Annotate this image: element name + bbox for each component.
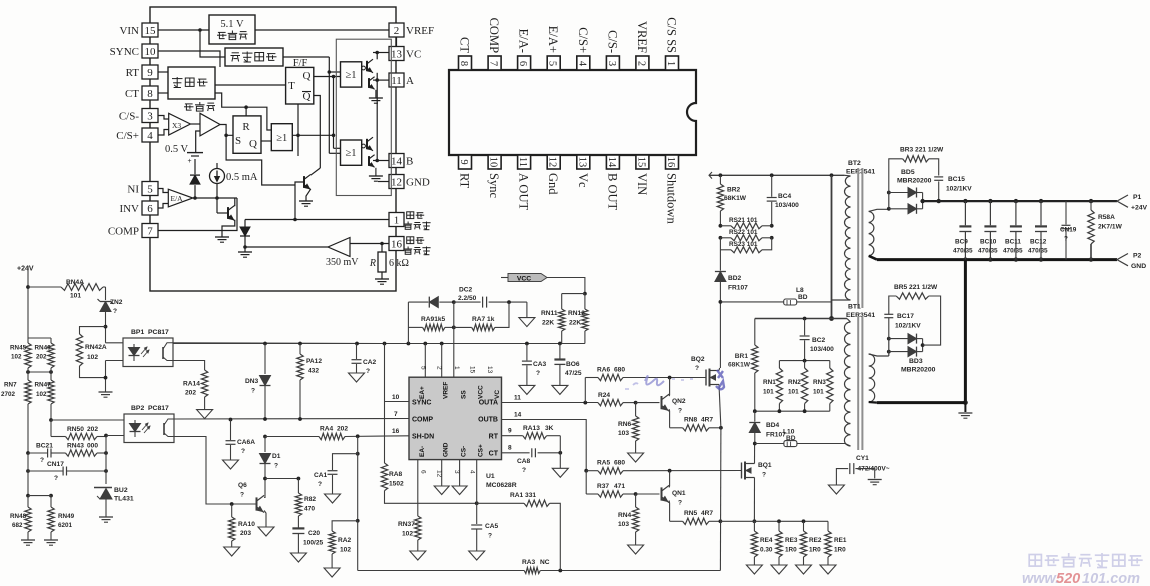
svg-text:10: 10 xyxy=(392,394,400,401)
svg-text:VREF: VREF xyxy=(443,382,450,399)
svg-text:+: + xyxy=(188,158,192,165)
diode below battery xyxy=(194,159,196,174)
svg-text:RA6: RA6 xyxy=(597,367,611,374)
svg-text:Q: Q xyxy=(303,70,311,82)
svg-text:BC12: BC12 xyxy=(1030,239,1047,246)
svg-text:C/S-: C/S- xyxy=(119,111,140,123)
DIP pin 7 COMP xyxy=(488,56,501,70)
svg-text:BD5: BD5 xyxy=(901,169,915,176)
svg-text:5: 5 xyxy=(420,366,427,370)
svg-text:RN2: RN2 xyxy=(788,379,801,386)
wire RT to oscillator xyxy=(158,71,168,73)
svg-text:CS+: CS+ xyxy=(478,444,485,457)
svg-text:C/S+: C/S+ xyxy=(116,130,139,142)
wire to BP1 LED xyxy=(106,342,124,344)
svg-text:CY1: CY1 xyxy=(856,455,869,462)
resistor RN46 202 xyxy=(50,338,52,343)
diode on DC2 row xyxy=(407,302,409,343)
OR gate small >=1 xyxy=(271,124,292,151)
pin 5 NI (block diagram) xyxy=(142,182,158,196)
svg-text:BR1: BR1 xyxy=(735,353,749,360)
svg-text:13: 13 xyxy=(486,366,493,374)
svg-text:1502: 1502 xyxy=(389,481,404,488)
SS pin column xyxy=(453,302,455,377)
svg-text:203: 203 xyxy=(240,530,251,537)
svg-text:2: 2 xyxy=(436,366,443,370)
svg-text:RN12: RN12 xyxy=(568,310,585,317)
resistor RA14 202 xyxy=(201,370,207,397)
svg-text:RT: RT xyxy=(126,67,140,79)
svg-text:11: 11 xyxy=(514,395,521,402)
capacitor CN17 xyxy=(26,469,30,473)
svg-text:15: 15 xyxy=(635,157,646,168)
DIP pin 12 Gnd xyxy=(547,155,560,169)
svg-text:RN48: RN48 xyxy=(10,513,27,520)
svg-text:1R0: 1R0 xyxy=(785,547,797,554)
thick secondary return xyxy=(869,256,877,260)
svg-text:1: 1 xyxy=(665,61,676,66)
diode BD2 FR107 xyxy=(715,272,726,282)
svg-text:RA14: RA14 xyxy=(183,381,200,388)
svg-text:2: 2 xyxy=(394,25,400,37)
svg-text:+24V: +24V xyxy=(1131,205,1148,212)
svg-text:?: ? xyxy=(678,500,682,507)
svg-text:520: 520 xyxy=(1056,571,1080,586)
svg-text:CT: CT xyxy=(489,451,499,458)
DIP pin 14 B OUT xyxy=(606,155,619,169)
svg-text:CT: CT xyxy=(125,88,139,100)
resistor RN2 101 xyxy=(804,361,806,368)
svg-text:9: 9 xyxy=(458,159,469,164)
IC functional block diagram outer box xyxy=(150,7,396,291)
svg-text:2702: 2702 xyxy=(1,391,16,398)
svg-text:SYNC: SYNC xyxy=(110,46,139,58)
svg-text:Shutdown: Shutdown xyxy=(664,173,678,224)
svg-text:16: 16 xyxy=(665,157,676,168)
U1 MC0628R controller IC xyxy=(409,377,502,459)
resistor RA7 1k xyxy=(454,326,472,328)
svg-text:≥1: ≥1 xyxy=(345,70,356,81)
svg-text:CA8: CA8 xyxy=(517,458,531,465)
middle driver transistor xyxy=(303,176,305,188)
svg-text:RS21 101: RS21 101 xyxy=(729,217,758,224)
resistor R24 xyxy=(598,399,623,405)
wire pin15 to 5.1V ref to pin2 VREF xyxy=(158,29,209,31)
OR gate B >=1 xyxy=(341,140,362,165)
svg-text:BR5 221 1/2W: BR5 221 1/2W xyxy=(894,284,938,291)
svg-text:R24: R24 xyxy=(598,392,610,399)
resistor RN6 103 to ground xyxy=(635,403,637,416)
wire emitters to pin 14 B xyxy=(373,160,389,162)
earth under totem B and pin 12 GND xyxy=(375,168,377,176)
svg-text:6: 6 xyxy=(147,203,153,215)
svg-text:4: 4 xyxy=(576,61,587,67)
zener ZN2 xyxy=(103,286,106,288)
svg-text:RA91k5: RA91k5 xyxy=(421,316,446,323)
svg-text:3: 3 xyxy=(453,470,460,474)
current-sense comparator xyxy=(200,113,220,136)
resistor RA10 203 xyxy=(231,504,233,517)
svg-text:GND: GND xyxy=(406,177,430,189)
svg-text:RN3: RN3 xyxy=(813,379,826,386)
resistor RN50 202 xyxy=(51,436,66,438)
wire +24V column A xyxy=(27,272,29,338)
svg-text:RS23 101: RS23 101 xyxy=(729,241,758,248)
svg-text:682: 682 xyxy=(12,522,23,529)
pin 2 VREF (block diagram) xyxy=(389,23,404,37)
svg-text:?: ? xyxy=(488,533,492,540)
svg-text:RN7: RN7 xyxy=(4,382,17,389)
svg-text:RN45: RN45 xyxy=(10,345,27,352)
svg-text:BC4: BC4 xyxy=(778,193,792,200)
resistor RN48 682 xyxy=(27,496,29,507)
svg-text:COMP: COMP xyxy=(108,226,139,238)
svg-text:RA5: RA5 xyxy=(597,460,611,467)
svg-text:VCC: VCC xyxy=(517,275,531,282)
svg-text:101.com: 101.com xyxy=(1082,571,1140,586)
svg-text:RN46: RN46 xyxy=(35,345,52,352)
svg-text:COMP: COMP xyxy=(487,18,501,53)
wire SYNC to oscillator xyxy=(158,51,220,67)
resistor RN1 101 xyxy=(778,361,780,368)
wire pin3 to X3 xyxy=(158,116,169,120)
wire to VC pin 13 xyxy=(373,52,389,54)
svg-text:?: ? xyxy=(318,481,322,488)
svg-text:RE2: RE2 xyxy=(809,537,822,544)
oscillator box 振荡器 xyxy=(168,67,215,99)
DIP pin 2 VREF xyxy=(636,56,649,70)
svg-text:?: ? xyxy=(762,472,766,479)
connector P2 GND xyxy=(1117,254,1128,266)
svg-text:4R7: 4R7 xyxy=(701,417,713,424)
thick ground drop xyxy=(964,260,967,403)
svg-text:TL431: TL431 xyxy=(114,496,134,503)
svg-text:RN4A: RN4A xyxy=(66,279,84,286)
capacitor BC4 103/400 xyxy=(771,175,773,197)
wire UVLO to gate rail xyxy=(283,56,329,58)
svg-text:12: 12 xyxy=(547,157,558,168)
svg-text:470/35: 470/35 xyxy=(978,248,998,255)
wire pin6 INV to E/A xyxy=(158,204,168,209)
transformer BT1 core xyxy=(857,316,859,450)
svg-text:RA3: RA3 xyxy=(522,559,536,566)
svg-text:BC11: BC11 xyxy=(1005,239,1021,246)
svg-text:4: 4 xyxy=(469,470,476,474)
resistor RA5 680 xyxy=(586,470,598,472)
resistor RN42A 102 xyxy=(80,327,106,334)
svg-text:103/400: 103/400 xyxy=(810,346,834,353)
svg-text:?: ? xyxy=(113,308,117,315)
svg-text:RN4: RN4 xyxy=(618,512,632,519)
svg-text:P2: P2 xyxy=(1133,253,1142,260)
svg-text:12: 12 xyxy=(391,177,402,189)
svg-text:0.30: 0.30 xyxy=(760,547,773,554)
capacitor CA6A xyxy=(230,420,232,441)
svg-text:?: ? xyxy=(241,448,245,455)
wire F/F Q to gate A xyxy=(314,76,341,78)
svg-text:47/25: 47/25 xyxy=(565,370,582,377)
svg-text:102: 102 xyxy=(36,391,47,398)
svg-text:E/A-: E/A- xyxy=(517,29,531,53)
svg-text:?: ? xyxy=(536,370,540,377)
svg-text:BC9: BC9 xyxy=(955,239,968,246)
resistor RS21 101 xyxy=(719,224,723,228)
svg-text:RN6: RN6 xyxy=(618,421,632,428)
svg-text:CN19: CN19 xyxy=(1060,227,1077,234)
svg-text:1: 1 xyxy=(394,215,400,227)
wire pin5 NI to E/A xyxy=(158,189,168,193)
svg-text:RN50: RN50 xyxy=(67,426,84,433)
350mV comparator (shutdown) xyxy=(328,238,350,257)
svg-text:10: 10 xyxy=(488,157,499,168)
wire CT to oscillator xyxy=(158,92,168,94)
svg-text:EER3541: EER3541 xyxy=(846,312,875,319)
svg-text:BD: BD xyxy=(786,435,796,442)
resistor RE4 0.30 xyxy=(753,521,755,531)
svg-text:≥1: ≥1 xyxy=(345,148,356,159)
svg-text:GND: GND xyxy=(443,442,450,457)
svg-text:C/S+: C/S+ xyxy=(576,27,590,53)
VCC flag xyxy=(508,274,547,282)
resistor RN43 000 xyxy=(66,450,98,456)
svg-text:T: T xyxy=(288,80,295,92)
svg-text:101: 101 xyxy=(763,389,774,396)
svg-text:471: 471 xyxy=(614,483,625,490)
resistor RA8 1502 xyxy=(381,463,387,491)
DIP pin 3 C/S- xyxy=(606,56,619,70)
svg-text:102: 102 xyxy=(402,531,413,538)
wire emitters to pin 11 A xyxy=(373,79,389,81)
svg-text:INV: INV xyxy=(119,203,139,215)
resistor RE2 1R0 xyxy=(803,521,805,531)
RT CT ground xyxy=(559,436,561,469)
svg-text:Q: Q xyxy=(249,138,257,150)
UVLO vertical rail to both gates xyxy=(328,57,330,153)
svg-text:RA10: RA10 xyxy=(238,521,255,528)
svg-text:202: 202 xyxy=(87,426,98,433)
earth ground at secondary xyxy=(958,412,972,414)
svg-text:B: B xyxy=(406,156,413,168)
resistor BR1 68K1W xyxy=(754,319,756,346)
wire BP2 cathode junction xyxy=(104,434,108,438)
svg-text:EA-: EA- xyxy=(419,446,426,457)
capacitor BC21 xyxy=(26,451,30,455)
wire 5.1V node down to UVLO xyxy=(200,30,225,57)
output stage enclosure box xyxy=(336,39,391,195)
DIP pin 1 C/S SS xyxy=(666,56,679,70)
wire D1 node to R82 xyxy=(265,478,298,480)
resistor BR2 68K1W xyxy=(719,175,721,184)
pin 10 SYNC (block diagram) xyxy=(142,44,158,58)
svg-text:RA7 1k: RA7 1k xyxy=(472,316,495,323)
svg-text:RN47: RN47 xyxy=(35,382,52,389)
totem transistor A lower xyxy=(368,78,370,88)
svg-text:VCC: VCC xyxy=(478,385,485,399)
svg-text:4: 4 xyxy=(147,130,153,142)
svg-text:CN17: CN17 xyxy=(47,461,64,468)
RA8 feed line xyxy=(384,344,386,464)
wire comparator node down around latch xyxy=(226,135,295,185)
filter cap BC9 470/35 xyxy=(963,199,967,203)
filter cap BC10 470/35 xyxy=(988,199,992,203)
svg-text:B OUT: B OUT xyxy=(605,173,619,211)
resistor R58A 2K7/1W xyxy=(1089,199,1093,203)
svg-text:?: ? xyxy=(251,388,255,395)
watermark 家电维修资料网 (red site logo) xyxy=(1029,555,1041,567)
svg-text:RN49: RN49 xyxy=(58,513,75,520)
DIP pin 16 Shutdown xyxy=(666,155,679,169)
svg-text:?: ? xyxy=(695,365,699,372)
ground stub on DC2 row xyxy=(526,302,528,318)
svg-text:RE3: RE3 xyxy=(785,537,798,544)
svg-text:4R7: 4R7 xyxy=(701,510,713,517)
svg-text:CA6A: CA6A xyxy=(237,439,255,446)
svg-text:680: 680 xyxy=(614,460,625,467)
OR gate A >=1 xyxy=(341,62,362,87)
wire BP1 emitter to RA14 xyxy=(173,361,205,371)
svg-text:?: ? xyxy=(40,457,44,464)
svg-text:470/35: 470/35 xyxy=(1028,248,1048,255)
svg-text:7: 7 xyxy=(147,226,153,238)
resistor RN11 22K xyxy=(561,294,563,309)
svg-text:103: 103 xyxy=(618,521,629,528)
resistor RE1 1R0 xyxy=(827,521,829,531)
pin 12 GND (block diagram) xyxy=(389,175,404,189)
feed to U1 pins EA+ and VREF xyxy=(424,344,426,378)
capacitor BC2 103/400 xyxy=(804,319,806,336)
svg-text:000: 000 xyxy=(87,443,98,450)
RN bottom row xyxy=(755,410,830,412)
svg-text:16: 16 xyxy=(391,239,403,251)
svg-text:BD3: BD3 xyxy=(909,358,923,365)
svg-text:?: ? xyxy=(522,467,526,474)
svg-text:103/400: 103/400 xyxy=(775,202,799,209)
svg-text:≥1: ≥1 xyxy=(276,133,287,144)
vertical rail from OR node xyxy=(297,104,299,156)
BT1 cluster top row xyxy=(755,318,847,320)
DIP pin 6 E/A- xyxy=(518,56,531,70)
U1 pins 12 and 3 to ground xyxy=(441,460,443,486)
wire oscillator to F/F T input xyxy=(215,84,286,86)
transistor at E/A output xyxy=(227,207,229,219)
resistor PA12 432 xyxy=(299,344,301,355)
svg-text:Gnd: Gnd xyxy=(546,173,560,195)
wire oscillator ramp to R latch input and OR gate xyxy=(215,93,271,130)
jog up to RA6 row xyxy=(584,378,586,403)
svg-text:D1: D1 xyxy=(272,453,281,460)
svg-text:BT2: BT2 xyxy=(848,160,861,167)
svg-text:7: 7 xyxy=(394,411,398,418)
svg-text:C20: C20 xyxy=(308,530,320,537)
svg-text:C/S SS: C/S SS xyxy=(664,17,678,53)
svg-text:7: 7 xyxy=(488,61,499,66)
svg-text:5: 5 xyxy=(147,184,153,196)
DIP pin 10 Sync xyxy=(488,155,501,169)
svg-text:VIN: VIN xyxy=(635,173,649,195)
resistor RA3 NC xyxy=(358,570,525,572)
label 关闭输入端 (shutdown input) pin 16 xyxy=(407,237,414,244)
svg-text:101: 101 xyxy=(70,293,81,300)
svg-text:E/A+: E/A+ xyxy=(546,26,560,53)
pin 9 RT (block diagram) xyxy=(142,65,158,79)
wire OR out to gate drive rails xyxy=(292,134,333,136)
pin 11 A (block diagram) xyxy=(389,73,404,87)
pin 15 VIN (block diagram) xyxy=(142,23,158,37)
resistor RA6 680 xyxy=(585,377,598,379)
svg-text:OUTA: OUTA xyxy=(479,400,498,407)
filter cap BC12 470/35 xyxy=(1039,199,1043,203)
DIP pin 13 Vc xyxy=(577,155,590,169)
svg-text:1: 1 xyxy=(453,366,460,370)
wire VCC flag to RN11 RN12 xyxy=(547,278,585,294)
svg-text:PA12: PA12 xyxy=(306,358,322,365)
capacitor C20 100/25 xyxy=(292,527,304,529)
svg-text:A OUT: A OUT xyxy=(517,173,531,211)
resistor RN8 4R7 xyxy=(670,427,683,429)
svg-text:BD2: BD2 xyxy=(728,275,742,282)
svg-text:BC15: BC15 xyxy=(948,176,965,183)
DIP-16 IC package body xyxy=(449,70,696,155)
svg-text:?: ? xyxy=(54,475,58,482)
svg-text:102: 102 xyxy=(11,354,22,361)
capacitor CA3 xyxy=(526,344,528,361)
U1 pin 4 CS+ to CA5 xyxy=(476,460,478,524)
svg-text:680: 680 xyxy=(614,367,625,374)
resistor RN3 101 xyxy=(829,361,831,368)
svg-text:14: 14 xyxy=(514,412,522,419)
wire pin4 to X3 xyxy=(158,130,169,136)
svg-text:E/A: E/A xyxy=(171,194,184,203)
svg-text:Vc: Vc xyxy=(576,173,590,188)
lower sense row xyxy=(27,453,29,496)
5.1V reference box xyxy=(209,15,255,44)
RN1 RN2 RN3 top row xyxy=(779,360,829,362)
svg-text:VC: VC xyxy=(494,390,501,399)
svg-text:MBR20200: MBR20200 xyxy=(897,178,932,185)
svg-text:BT1: BT1 xyxy=(848,304,861,311)
svg-text:11: 11 xyxy=(391,75,402,87)
svg-text:68K1W: 68K1W xyxy=(728,362,751,369)
+24V output rail xyxy=(923,200,1117,202)
HV input rail xyxy=(709,172,712,179)
svg-text:102: 102 xyxy=(87,354,98,361)
TL431 BU2 xyxy=(94,487,112,489)
svg-text:RN1: RN1 xyxy=(763,379,776,386)
rail VC down to gate B stage xyxy=(376,80,378,135)
resistor RN12 22K xyxy=(584,294,586,309)
svg-text:RN8: RN8 xyxy=(684,417,698,424)
svg-text:13: 13 xyxy=(391,49,403,61)
svg-text:QN1: QN1 xyxy=(672,490,686,497)
wire BP2 node down to TL431 xyxy=(105,436,107,485)
capacitor BO6 47/25 xyxy=(559,344,561,360)
svg-text:FR107: FR107 xyxy=(728,285,748,292)
svg-text:RA8: RA8 xyxy=(389,471,403,478)
filter cap BC11 470/35 xyxy=(1014,199,1018,203)
pin 13 VC (block diagram) xyxy=(389,47,404,61)
svg-text:?: ? xyxy=(274,463,278,470)
svg-text:102: 102 xyxy=(340,547,351,554)
svg-text:NI: NI xyxy=(127,184,139,196)
svg-text:22K: 22K xyxy=(569,320,581,327)
resistor RN49 6201 xyxy=(50,496,52,507)
ground below BP1 LED xyxy=(99,391,113,393)
resistor RN5 4R7 xyxy=(670,520,683,522)
resistor R 6k ohm xyxy=(381,244,383,253)
totem transistor B upper xyxy=(366,139,368,149)
svg-text:BD: BD xyxy=(798,294,808,301)
svg-text:BR3 221 1/2W: BR3 221 1/2W xyxy=(900,147,944,154)
